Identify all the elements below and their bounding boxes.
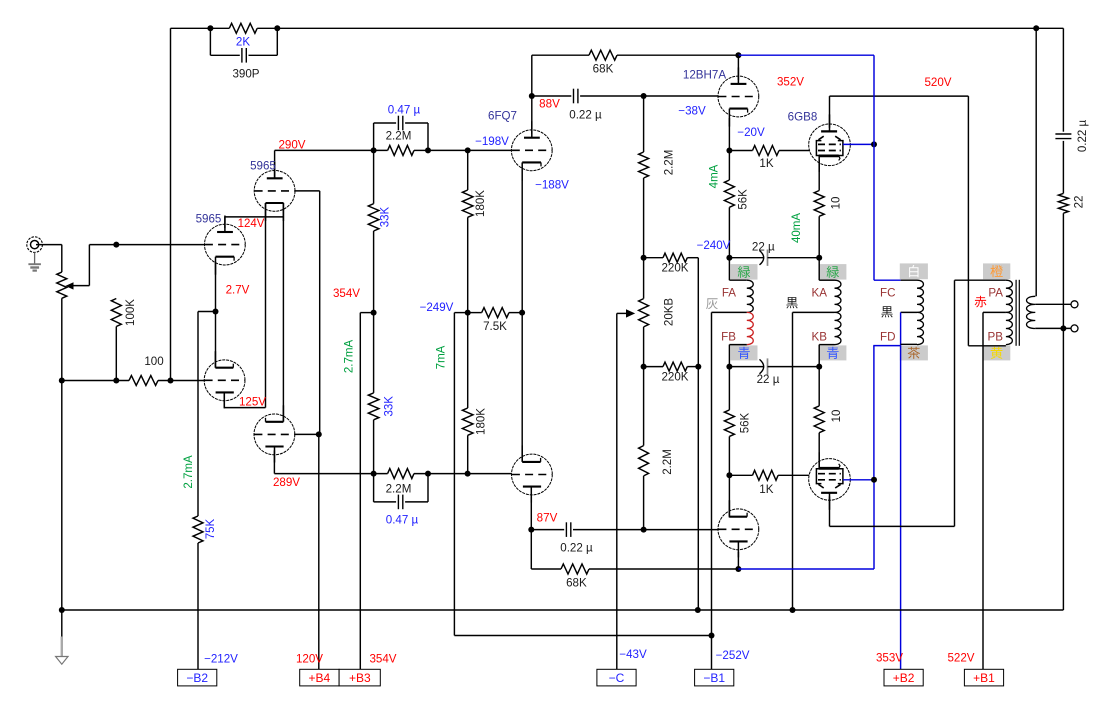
- svg-text:0.47 µ: 0.47 µ: [388, 103, 421, 116]
- svg-text:100: 100: [144, 355, 163, 368]
- svg-text:22 µ: 22 µ: [752, 241, 775, 254]
- svg-text:7mA: 7mA: [436, 345, 448, 369]
- svg-text:10: 10: [831, 197, 843, 210]
- svg-text:56K: 56K: [738, 189, 750, 210]
- svg-text:10: 10: [831, 410, 843, 423]
- svg-text:120V: 120V: [296, 652, 323, 665]
- svg-text:KB: KB: [812, 330, 828, 343]
- svg-text:20KB: 20KB: [664, 298, 676, 326]
- svg-text:220K: 220K: [661, 262, 688, 275]
- svg-text:0.47 µ: 0.47 µ: [386, 514, 419, 527]
- svg-text:+B2: +B2: [893, 671, 915, 685]
- svg-text:−212V: −212V: [204, 652, 238, 665]
- svg-text:1K: 1K: [759, 483, 773, 496]
- svg-text:75K: 75K: [205, 518, 217, 539]
- svg-text:2.7mA: 2.7mA: [183, 455, 195, 489]
- svg-text:124V: 124V: [238, 218, 265, 230]
- svg-text:220K: 220K: [661, 371, 688, 384]
- svg-text:352V: 352V: [777, 75, 804, 88]
- svg-text:180K: 180K: [475, 190, 487, 217]
- svg-text:33K: 33K: [380, 206, 392, 227]
- svg-text:4mA: 4mA: [709, 164, 721, 188]
- svg-text:520V: 520V: [924, 76, 951, 89]
- svg-text:6FQ7: 6FQ7: [488, 109, 517, 122]
- svg-text:0.22 µ: 0.22 µ: [569, 108, 602, 121]
- svg-text:0.22 µ: 0.22 µ: [1077, 120, 1089, 153]
- svg-text:−20V: −20V: [737, 126, 765, 139]
- svg-text:125V: 125V: [239, 396, 266, 409]
- svg-text:−240V: −240V: [697, 239, 731, 252]
- svg-text:88V: 88V: [539, 97, 560, 110]
- svg-text:2.7V: 2.7V: [226, 283, 250, 296]
- svg-text:PB: PB: [988, 330, 1004, 343]
- svg-text:+B4: +B4: [309, 671, 331, 685]
- svg-text:87V: 87V: [537, 511, 558, 524]
- svg-text:33K: 33K: [384, 396, 396, 417]
- svg-text:289V: 289V: [273, 476, 300, 489]
- svg-text:−198V: −198V: [475, 135, 509, 148]
- svg-text:6GB8: 6GB8: [788, 110, 818, 123]
- svg-text:5965: 5965: [250, 159, 276, 172]
- svg-text:−B1: −B1: [703, 671, 725, 685]
- svg-text:354V: 354V: [369, 652, 396, 665]
- svg-text:100K: 100K: [125, 299, 137, 326]
- svg-text:+B3: +B3: [349, 671, 371, 685]
- svg-text:+B1: +B1: [973, 671, 995, 685]
- svg-text:390P: 390P: [232, 68, 259, 81]
- svg-text:2.2M: 2.2M: [662, 449, 674, 475]
- svg-text:−38V: −38V: [678, 104, 706, 117]
- svg-text:522V: 522V: [947, 651, 974, 664]
- svg-text:40mA: 40mA: [791, 213, 803, 243]
- svg-text:7.5K: 7.5K: [483, 320, 507, 333]
- svg-text:−252V: −252V: [716, 649, 750, 662]
- svg-text:22: 22: [1074, 196, 1086, 209]
- svg-text:2K: 2K: [236, 36, 250, 49]
- svg-text:FD: FD: [880, 330, 895, 343]
- svg-text:FA: FA: [722, 286, 736, 299]
- svg-text:−188V: −188V: [535, 178, 569, 191]
- svg-text:12BH7A: 12BH7A: [683, 68, 726, 81]
- svg-text:FB: FB: [721, 330, 736, 343]
- svg-text:290V: 290V: [278, 139, 305, 152]
- svg-text:PA: PA: [988, 286, 1003, 299]
- svg-text:−43V: −43V: [619, 648, 647, 661]
- svg-text:2.7mA: 2.7mA: [344, 340, 356, 374]
- svg-text:KA: KA: [812, 286, 828, 299]
- svg-text:FC: FC: [880, 286, 895, 299]
- svg-text:−C: −C: [609, 671, 625, 685]
- svg-text:−B2: −B2: [186, 671, 208, 685]
- svg-text:−249V: −249V: [420, 301, 454, 314]
- svg-text:354V: 354V: [333, 287, 360, 300]
- svg-text:0.22 µ: 0.22 µ: [560, 541, 593, 554]
- svg-text:68K: 68K: [566, 576, 587, 589]
- svg-text:56K: 56K: [740, 412, 752, 433]
- svg-text:5965: 5965: [196, 212, 222, 225]
- svg-text:68K: 68K: [593, 62, 614, 75]
- svg-text:180K: 180K: [476, 408, 488, 435]
- svg-text:1K: 1K: [759, 157, 773, 170]
- svg-text:22 µ: 22 µ: [757, 373, 780, 386]
- svg-text:2.2M: 2.2M: [664, 150, 676, 176]
- svg-text:2.2M: 2.2M: [386, 483, 412, 496]
- svg-text:353V: 353V: [876, 651, 903, 664]
- svg-text:2.2M: 2.2M: [386, 130, 412, 143]
